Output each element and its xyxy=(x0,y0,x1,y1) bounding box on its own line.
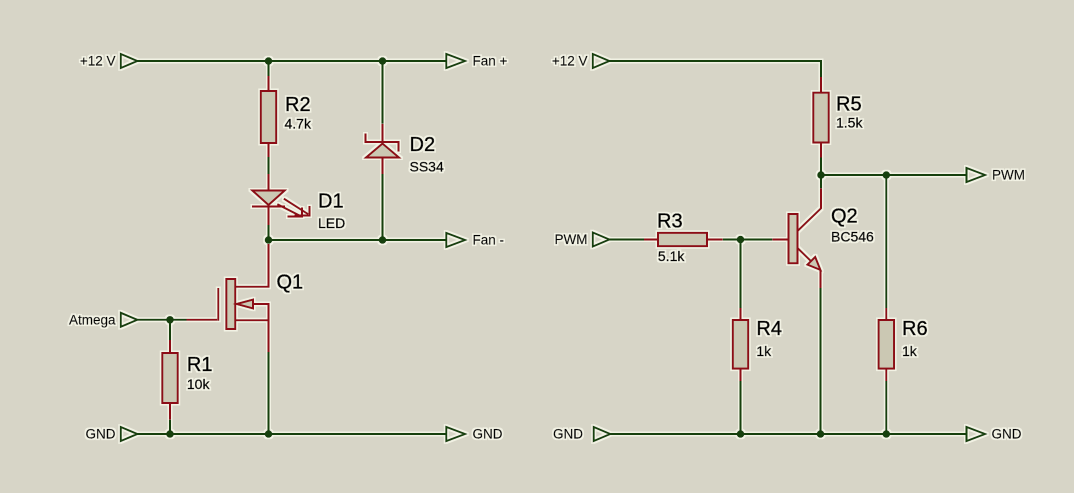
wire +12V rail right xyxy=(609,61,821,77)
node R4/GND junction xyxy=(737,430,745,438)
wire Fan- rail xyxy=(269,239,447,241)
svg-text:+12 V: +12 V xyxy=(552,54,588,69)
wire GND rail left xyxy=(137,433,446,435)
label R1 10k xyxy=(187,354,213,392)
svg-text:LED: LED xyxy=(318,215,345,231)
port Fan + xyxy=(446,54,507,69)
wire Q1 source to GND rail xyxy=(268,352,270,434)
svg-text:1k: 1k xyxy=(756,343,772,359)
node R6/PWM junction xyxy=(883,171,891,179)
label R3 5.1k xyxy=(657,211,685,264)
label Q2 BC546 xyxy=(831,206,874,245)
port PWM (input) xyxy=(555,232,610,247)
wire D1 to Fan- rail xyxy=(268,225,270,240)
wire Atmega to gate xyxy=(137,319,186,321)
resistor R4 xyxy=(733,308,749,381)
svg-text:+12 V: +12 V xyxy=(80,54,116,69)
port +12V (left) xyxy=(80,54,137,69)
svg-text:BC546: BC546 xyxy=(831,229,874,245)
wire +12V to R2 xyxy=(268,61,270,76)
node R2/+12V junction xyxy=(265,57,273,65)
svg-text:R6: R6 xyxy=(902,318,928,340)
wire GND rail right xyxy=(610,433,966,435)
svg-text:R2: R2 xyxy=(285,94,311,116)
svg-text:SS34: SS34 xyxy=(410,158,444,174)
svg-text:PWM: PWM xyxy=(992,168,1025,183)
svg-text:1k: 1k xyxy=(902,343,918,359)
svg-text:5.1k: 5.1k xyxy=(658,248,685,264)
wire PWM input to R3 xyxy=(609,239,644,241)
svg-text:Q1: Q1 xyxy=(277,271,304,293)
svg-text:GND: GND xyxy=(86,427,116,442)
svg-text:Atmega: Atmega xyxy=(69,312,116,327)
label R2 4.7k xyxy=(285,94,312,132)
wire R2 to D1 xyxy=(268,157,270,174)
port +12V (right) xyxy=(552,54,609,69)
wire junction to R1 xyxy=(169,320,171,340)
wire +12V rail left xyxy=(137,60,446,62)
resistor R6 xyxy=(879,308,895,381)
label R6 1k xyxy=(902,318,928,359)
svg-text:4.7k: 4.7k xyxy=(285,116,312,132)
port GND (left input) xyxy=(86,427,138,442)
label D2 SS34 xyxy=(410,134,444,174)
svg-text:R4: R4 xyxy=(756,318,782,340)
label R5 1.5k xyxy=(836,94,863,131)
svg-text:Q2: Q2 xyxy=(831,206,858,228)
diode D1 LED xyxy=(252,174,310,225)
node R5/Q2 junction xyxy=(817,171,825,179)
wire R6 to GND rail xyxy=(885,381,887,434)
transistor Q2 BC546 xyxy=(772,188,821,288)
wire R5 to PWM rail xyxy=(820,158,822,176)
port GND (right input) xyxy=(553,427,610,442)
diode D2 schottky xyxy=(366,124,400,174)
resistor R5 xyxy=(813,77,829,158)
svg-text:10k: 10k xyxy=(187,376,211,392)
node Atmega/R1 junction xyxy=(166,316,174,324)
node Q1/GND junction xyxy=(265,430,273,438)
svg-text:R5: R5 xyxy=(836,94,862,116)
node R3/R4 junction xyxy=(737,236,745,244)
transistor Q1 MOSFET xyxy=(187,244,269,352)
wire PWM junction to Q2 collector xyxy=(820,175,822,188)
label R4 1k xyxy=(756,318,782,359)
svg-text:R3: R3 xyxy=(657,211,683,233)
svg-text:GND: GND xyxy=(992,427,1022,442)
wire R3 to base junction xyxy=(723,239,773,241)
wire PWM out rail xyxy=(821,174,967,176)
port GND (right output) xyxy=(967,427,1022,442)
svg-text:PWM: PWM xyxy=(555,232,588,247)
label D1 LED xyxy=(318,191,345,231)
node D1/Fan- junction xyxy=(265,236,273,244)
port PWM (output) xyxy=(967,168,1026,183)
svg-text:R1: R1 xyxy=(187,354,213,376)
svg-text:D2: D2 xyxy=(410,134,436,156)
svg-text:GND: GND xyxy=(473,427,503,442)
svg-text:GND: GND xyxy=(553,427,583,442)
port Fan - xyxy=(446,233,504,248)
resistor R3 xyxy=(644,233,723,246)
node R6/GND junction xyxy=(883,430,891,438)
resistor R2 xyxy=(261,76,277,157)
wire R4 to GND rail xyxy=(740,381,742,434)
svg-text:Fan -: Fan - xyxy=(473,233,505,248)
port GND (left output) xyxy=(446,427,502,442)
wire base junction to R4 xyxy=(740,240,742,309)
wire D2 to Fan- rail xyxy=(382,174,384,240)
port Atmega xyxy=(69,312,137,327)
resistor R1 xyxy=(162,340,178,420)
wire +12V to D2 xyxy=(382,61,384,124)
svg-text:D1: D1 xyxy=(318,191,344,213)
svg-text:1.5k: 1.5k xyxy=(836,114,863,130)
node D2/+12V junction xyxy=(379,57,387,65)
node Q2/GND junction xyxy=(817,430,825,438)
svg-text:Fan +: Fan + xyxy=(473,54,508,69)
wire R1 to GND rail xyxy=(169,420,171,434)
node D2/Fan- junction xyxy=(379,236,387,244)
wire PWM junction to R6 xyxy=(885,175,887,308)
node R1/GND junction xyxy=(166,430,174,438)
wire Q2 emitter to GND rail xyxy=(820,288,822,434)
